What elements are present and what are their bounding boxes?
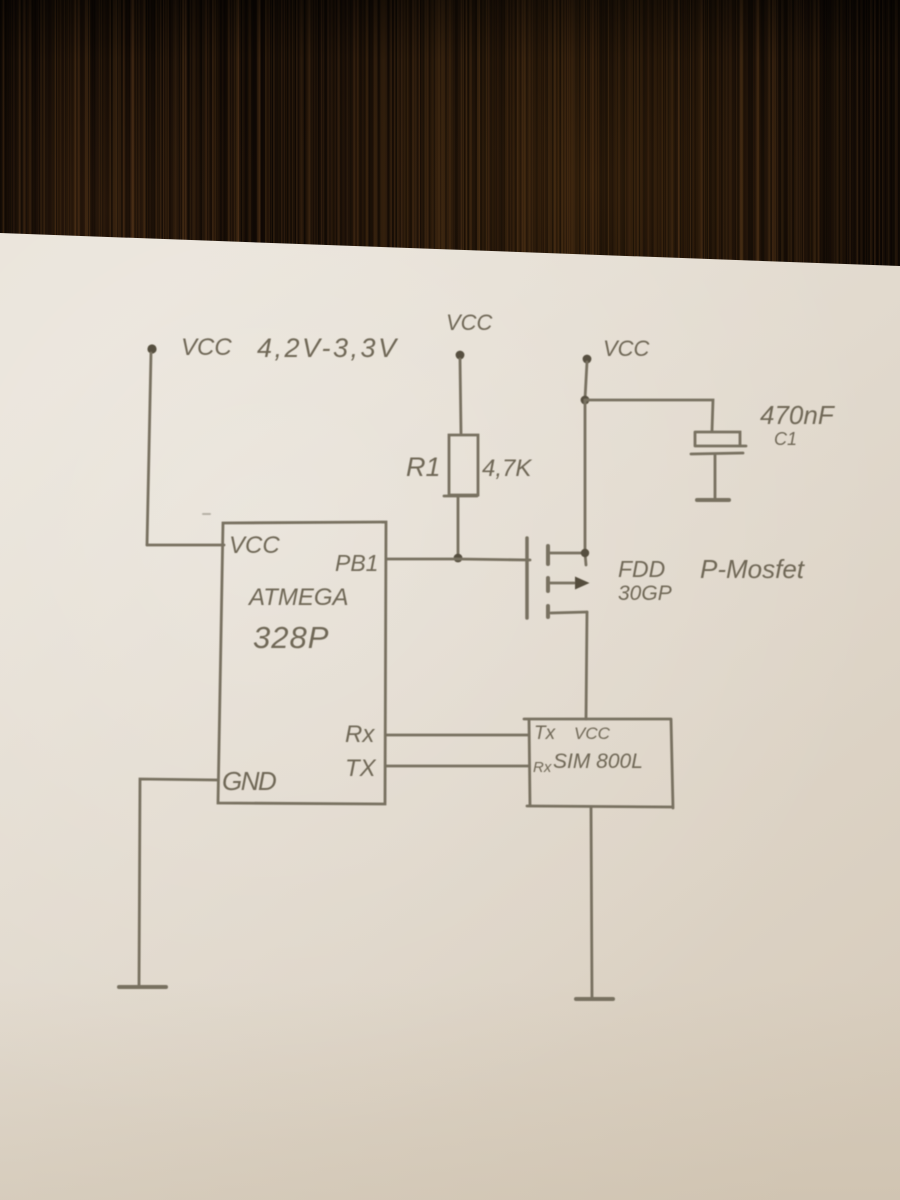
svg-text:VCC: VCC (229, 532, 280, 559)
module SIM800L body (524, 719, 673, 808)
svg-text:SIM 800L: SIM 800L (553, 750, 643, 773)
svg-text:FDD: FDD (618, 556, 665, 582)
svg-text:VCC: VCC (446, 310, 493, 335)
transistor Q1 gate bar (525, 538, 529, 618)
svg-text:4,7K: 4,7K (482, 455, 532, 482)
wire ATMEGA Rx to SIM Tx (386, 734, 528, 737)
svg-text:P-Mosfet: P-Mosfet (700, 554, 806, 584)
svg-text:VCC: VCC (603, 336, 650, 361)
svg-text:470nF: 470nF (760, 400, 836, 430)
transistor Q1 channel segments (546, 546, 550, 617)
svg-text:TX: TX (345, 755, 377, 782)
wire drain up to VCC junction (585, 400, 586, 565)
svg-text:4,2V-3,3V: 4,2V-3,3V (257, 333, 399, 363)
junction node drain (581, 549, 589, 557)
wire ATMEGA Tx to SIM Rx (386, 765, 528, 768)
svg-text:C1: C1 (774, 429, 797, 449)
wire VCC to R1 (460, 359, 461, 433)
svg-text:Rx: Rx (533, 759, 552, 776)
svg-text:30GP: 30GP (618, 582, 672, 605)
resistor R1 (444, 435, 478, 496)
svg-text:328P: 328P (253, 620, 329, 655)
node VCC supply (top-left) (147, 344, 156, 353)
svg-text:ATMEGA: ATMEGA (247, 584, 349, 611)
wire VCC node down (585, 362, 587, 399)
capacitor C1 plates (691, 432, 746, 454)
svg-text:PB1: PB1 (335, 550, 378, 576)
wire into ATMEGA VCC pin (147, 544, 224, 547)
transistor Q1 drain stub (550, 552, 585, 555)
faint pencil speck (203, 513, 210, 515)
wire junction to C1 (585, 400, 713, 431)
wire GND from ATMEGA to ground (139, 779, 218, 987)
junction node VCC/C1 (581, 396, 590, 405)
transistor Q1 source stub (551, 612, 587, 613)
svg-text:R1: R1 (406, 452, 441, 482)
svg-text:Tx: Tx (534, 723, 557, 744)
wire SIM800L GND down (591, 807, 592, 997)
node VCC (MOSFET rail) (583, 355, 592, 364)
IC U1 ATMEGA328P body (218, 522, 386, 804)
wire source down to SIM800L VCC (586, 612, 587, 719)
svg-text:GND: GND (222, 766, 276, 796)
svg-text:Rx: Rx (345, 721, 375, 748)
svg-text:VCC: VCC (574, 724, 611, 743)
svg-text:VCC: VCC (181, 334, 232, 361)
ground bar (left) (119, 985, 166, 989)
wire PB1 to MOSFET gate (386, 559, 530, 560)
junction node R1/PB1 (454, 554, 463, 563)
C1 bottom terminal bar (697, 498, 729, 502)
transistor Q1 body arrow (550, 582, 574, 585)
background wood table (0, 0, 900, 272)
wire R1 to PB1 net (457, 497, 460, 557)
ground bar (right) (576, 997, 613, 1001)
wire C1 to end bar (714, 454, 717, 498)
wire VCC top-left down to ATMEGA VCC (147, 353, 151, 545)
node VCC (R1 rail) (456, 351, 465, 360)
